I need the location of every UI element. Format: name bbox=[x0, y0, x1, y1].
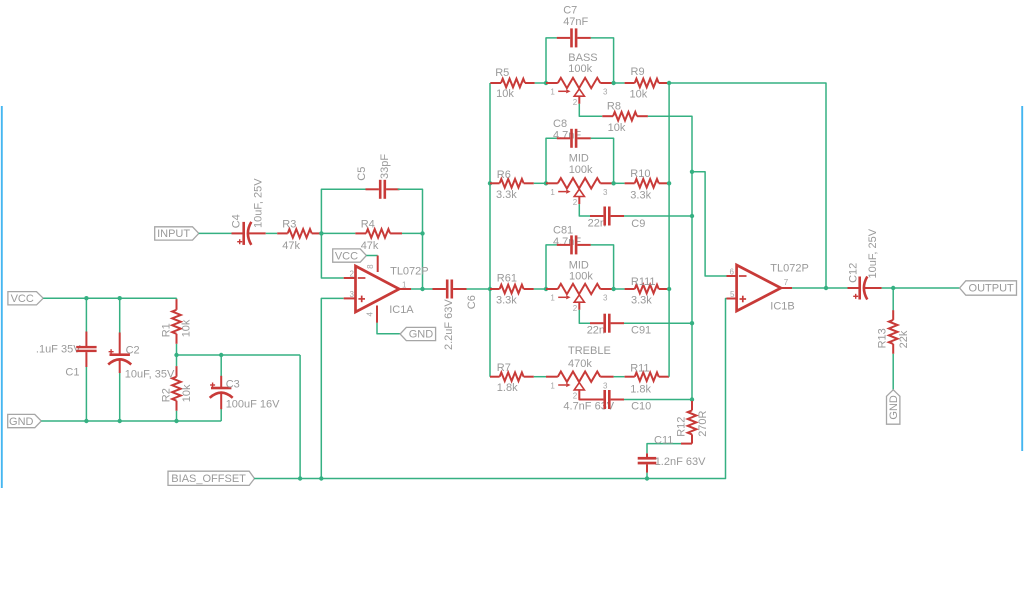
junction bbox=[219, 353, 223, 357]
wire bbox=[119, 298, 121, 332]
junction bbox=[544, 181, 548, 185]
junction bbox=[891, 286, 895, 290]
wire bbox=[624, 399, 692, 401]
wire to IN- pin bbox=[321, 233, 343, 278]
resistor R61 bbox=[490, 273, 534, 307]
svg-text:4.7nF 63V: 4.7nF 63V bbox=[563, 400, 614, 412]
svg-text:10k: 10k bbox=[630, 89, 648, 101]
wire bbox=[402, 232, 423, 234]
wire C81 loop left bbox=[546, 245, 557, 289]
svg-text:R4: R4 bbox=[361, 219, 375, 231]
svg-text:3.3k: 3.3k bbox=[631, 295, 652, 307]
svg-text:INPUT: INPUT bbox=[157, 228, 190, 240]
svg-text:3.3k: 3.3k bbox=[630, 190, 651, 202]
wire input bus bbox=[489, 83, 491, 377]
op-amp IC1B (TL072P) bbox=[727, 263, 809, 313]
svg-text:VCC: VCC bbox=[335, 250, 358, 262]
svg-text:10k: 10k bbox=[181, 384, 193, 402]
svg-text:VCC: VCC bbox=[11, 293, 34, 305]
svg-text:C7: C7 bbox=[563, 5, 577, 17]
junction bbox=[667, 287, 671, 291]
capacitor C8 bbox=[553, 118, 591, 148]
capacitor C10 bbox=[563, 390, 651, 412]
svg-text:10uF, 25V: 10uF, 25V bbox=[867, 228, 879, 278]
potentiometer TREBLE bbox=[546, 345, 614, 401]
junction bbox=[118, 419, 122, 423]
wire bbox=[579, 104, 602, 116]
resistor R8 bbox=[602, 101, 648, 135]
junction feedback bbox=[824, 286, 828, 290]
svg-text:GND: GND bbox=[888, 395, 900, 420]
capacitor C91 bbox=[587, 314, 651, 337]
wire C7 loop right bbox=[591, 38, 614, 83]
wire bbox=[266, 232, 278, 234]
wire bbox=[176, 344, 178, 355]
svg-text:R61: R61 bbox=[497, 273, 517, 285]
wire bbox=[624, 322, 692, 324]
junction IC1A out bbox=[420, 287, 424, 291]
svg-text:1: 1 bbox=[550, 294, 555, 303]
svg-text:C1: C1 bbox=[65, 366, 79, 378]
wire bbox=[85, 298, 87, 331]
svg-text:10uF, 25V: 10uF, 25V bbox=[253, 178, 265, 228]
svg-text:6: 6 bbox=[730, 267, 735, 276]
wire bbox=[646, 473, 648, 479]
svg-text:MID: MID bbox=[569, 153, 589, 165]
svg-text:TREBLE: TREBLE bbox=[568, 345, 611, 357]
resistor R4 bbox=[355, 219, 402, 253]
junction bbox=[319, 476, 323, 480]
resistor R13 bbox=[877, 310, 911, 354]
svg-text:R9: R9 bbox=[631, 66, 645, 78]
svg-text:470k: 470k bbox=[568, 358, 592, 370]
svg-text:R1: R1 bbox=[161, 323, 173, 337]
svg-text:C3: C3 bbox=[226, 379, 240, 391]
svg-text:100k: 100k bbox=[569, 164, 593, 176]
svg-text:47k: 47k bbox=[361, 240, 379, 252]
wire summing bus bbox=[648, 116, 692, 401]
wire bbox=[220, 355, 222, 376]
svg-text:5: 5 bbox=[730, 290, 735, 299]
resistor R3 bbox=[277, 219, 321, 253]
svg-text:7: 7 bbox=[784, 278, 789, 287]
wire bbox=[614, 288, 625, 290]
svg-text:47nF: 47nF bbox=[563, 16, 588, 28]
wire mid rail bbox=[177, 354, 301, 356]
wire bbox=[467, 288, 491, 290]
potentiometer MID bbox=[546, 153, 614, 208]
svg-text:BASS: BASS bbox=[568, 52, 597, 64]
svg-text:C9: C9 bbox=[631, 218, 645, 230]
wire to IC1B IN- bbox=[692, 172, 727, 276]
svg-text:1: 1 bbox=[550, 88, 555, 97]
wire GND rail bbox=[41, 420, 221, 422]
junction bbox=[611, 181, 615, 185]
svg-text:2: 2 bbox=[573, 198, 578, 207]
supply GND flag bbox=[8, 414, 42, 427]
svg-text:2: 2 bbox=[573, 392, 578, 401]
junction bbox=[690, 214, 694, 218]
svg-text:C11: C11 bbox=[654, 434, 673, 446]
svg-text:3: 3 bbox=[603, 88, 608, 97]
port INPUT flag bbox=[155, 227, 199, 240]
wire bbox=[176, 355, 178, 366]
svg-text:100k: 100k bbox=[568, 63, 592, 75]
svg-text:C91: C91 bbox=[631, 325, 651, 337]
svg-text:R7: R7 bbox=[497, 362, 511, 374]
svg-text:C6: C6 bbox=[466, 295, 478, 309]
junction bbox=[84, 296, 88, 300]
wire bias offset bbox=[254, 299, 726, 479]
supply VCC flag bbox=[333, 249, 367, 262]
svg-text:1.8k: 1.8k bbox=[497, 382, 518, 394]
supply GND flag bbox=[400, 327, 436, 340]
svg-text:C5: C5 bbox=[356, 167, 368, 181]
svg-text:3.3k: 3.3k bbox=[496, 189, 517, 201]
junction bbox=[84, 419, 88, 423]
svg-text:1: 1 bbox=[550, 381, 555, 390]
resistor R10 bbox=[625, 168, 670, 202]
svg-text:47k: 47k bbox=[282, 240, 300, 252]
wire C8 loop right bbox=[591, 138, 614, 183]
svg-text:3: 3 bbox=[350, 290, 355, 299]
wire bbox=[614, 182, 625, 184]
wire bbox=[398, 189, 423, 289]
port BIAS_OFFSET flag bbox=[168, 471, 255, 485]
wire bias riser bbox=[299, 355, 301, 479]
wire bbox=[176, 298, 178, 299]
junction bbox=[667, 181, 671, 185]
svg-text:R12: R12 bbox=[676, 417, 688, 437]
svg-text:R11: R11 bbox=[630, 362, 649, 374]
svg-text:R2: R2 bbox=[161, 388, 173, 402]
svg-text:C2: C2 bbox=[126, 345, 140, 357]
svg-text:10uF, 35V: 10uF, 35V bbox=[125, 368, 175, 380]
wire VCC rail bbox=[43, 297, 177, 299]
wire bbox=[321, 232, 355, 234]
junction bbox=[645, 476, 649, 480]
svg-text:R13: R13 bbox=[877, 328, 889, 348]
wire bbox=[892, 288, 894, 310]
wire bbox=[579, 397, 590, 399]
svg-text:22n: 22n bbox=[588, 218, 606, 230]
svg-text:2.2uF 63V: 2.2uF 63V bbox=[443, 299, 455, 350]
svg-text:4: 4 bbox=[365, 312, 374, 317]
svg-text:R10: R10 bbox=[630, 168, 650, 180]
svg-text:3: 3 bbox=[603, 188, 608, 197]
junction bbox=[611, 81, 615, 85]
svg-text:8: 8 bbox=[366, 264, 375, 269]
capacitor C7 bbox=[557, 5, 591, 48]
wire output bus bbox=[668, 83, 670, 377]
capacitor C11 bbox=[638, 434, 706, 472]
svg-text:IC1B: IC1B bbox=[770, 300, 794, 312]
wire bbox=[411, 288, 433, 290]
svg-text:C12: C12 bbox=[847, 263, 859, 283]
junction bbox=[298, 476, 302, 480]
svg-text:2: 2 bbox=[350, 270, 355, 279]
svg-text:R3: R3 bbox=[282, 219, 296, 231]
op-amp IC1A (TL072P) bbox=[344, 256, 429, 323]
svg-text:C8: C8 bbox=[553, 118, 567, 130]
svg-text:33pF: 33pF bbox=[379, 154, 391, 179]
resistor R111 bbox=[625, 276, 670, 307]
wire bbox=[892, 354, 894, 390]
svg-text:TL072P: TL072P bbox=[390, 266, 429, 278]
junction bbox=[544, 81, 548, 85]
supply GND flag bbox=[887, 390, 901, 424]
resistor R2 bbox=[161, 366, 194, 411]
wire bbox=[624, 215, 692, 217]
svg-text:2: 2 bbox=[573, 304, 578, 313]
svg-text:R6: R6 bbox=[497, 169, 511, 181]
svg-text:R8: R8 bbox=[607, 101, 621, 113]
svg-text:1: 1 bbox=[402, 281, 407, 290]
junction bbox=[420, 231, 424, 235]
capacitor C1 bbox=[36, 332, 97, 379]
wire bbox=[579, 204, 590, 216]
svg-text:100k: 100k bbox=[569, 271, 593, 283]
svg-text:R111: R111 bbox=[631, 276, 656, 288]
wire C7 loop left bbox=[546, 38, 557, 83]
wire output bbox=[882, 287, 960, 289]
wire bbox=[534, 288, 546, 290]
potentiometer MID2 bbox=[546, 260, 614, 313]
svg-text:C10: C10 bbox=[631, 400, 651, 412]
svg-text:2: 2 bbox=[573, 98, 578, 107]
wire feedback top bbox=[669, 83, 826, 288]
svg-text:10k: 10k bbox=[496, 88, 514, 100]
wire to IN+ pin bbox=[321, 298, 343, 478]
wire IC1B out bbox=[792, 287, 849, 289]
wire C8 loop left bbox=[546, 138, 557, 183]
wire bbox=[614, 376, 625, 378]
capacitor C6 bbox=[433, 280, 479, 351]
junction bbox=[544, 287, 548, 291]
wire bbox=[85, 367, 87, 421]
svg-text:3: 3 bbox=[603, 294, 608, 303]
capacitor C5 bbox=[356, 154, 399, 199]
wire bbox=[176, 411, 178, 421]
svg-text:GND: GND bbox=[9, 416, 34, 428]
svg-text:C4: C4 bbox=[230, 214, 242, 228]
wire bbox=[647, 444, 681, 454]
svg-text:270R: 270R bbox=[697, 410, 709, 436]
svg-text:10k: 10k bbox=[608, 122, 626, 134]
capacitor C4 bbox=[230, 178, 265, 245]
svg-text:R5: R5 bbox=[495, 67, 509, 79]
potentiometer BASS bbox=[546, 52, 614, 107]
svg-text:100uF 16V: 100uF 16V bbox=[226, 398, 280, 410]
svg-text:3.3k: 3.3k bbox=[496, 295, 517, 307]
wire bbox=[366, 255, 377, 257]
junction bbox=[690, 397, 694, 401]
junction node IN- bbox=[319, 231, 323, 235]
junction bbox=[488, 287, 492, 291]
resistor R5 bbox=[490, 67, 534, 100]
svg-text:BIAS_OFFSET: BIAS_OFFSET bbox=[171, 473, 246, 485]
capacitor C81 bbox=[553, 225, 591, 255]
svg-text:.1uF 35V: .1uF 35V bbox=[36, 343, 81, 355]
wire bbox=[614, 82, 625, 84]
resistor R6 bbox=[490, 169, 534, 201]
capacitor C9 bbox=[588, 207, 646, 231]
wire bbox=[535, 82, 546, 84]
svg-text:TL072P: TL072P bbox=[770, 263, 809, 275]
junction bbox=[690, 321, 694, 325]
wire C81 loop right bbox=[591, 245, 614, 289]
svg-text:1.8k: 1.8k bbox=[630, 384, 651, 396]
wire input bbox=[199, 232, 232, 234]
svg-text:22n: 22n bbox=[587, 325, 605, 337]
junction bbox=[611, 287, 615, 291]
junction bbox=[488, 181, 492, 185]
svg-text:10k: 10k bbox=[181, 319, 193, 337]
wire bbox=[534, 376, 546, 378]
junction bbox=[667, 81, 671, 85]
resistor R1 bbox=[161, 299, 193, 344]
wire bbox=[377, 323, 400, 334]
capacitor C12 bbox=[847, 228, 881, 299]
junction bbox=[690, 170, 694, 174]
capacitor C2 bbox=[108, 333, 175, 381]
wire C5 branch bbox=[321, 189, 367, 233]
svg-text:22k: 22k bbox=[898, 330, 910, 348]
resistor R9 bbox=[625, 66, 670, 100]
svg-text:IC1A: IC1A bbox=[389, 304, 414, 316]
svg-text:GND: GND bbox=[409, 329, 434, 341]
svg-text:1.2nF 63V: 1.2nF 63V bbox=[655, 456, 706, 468]
capacitor C3 bbox=[210, 376, 280, 411]
junction bbox=[118, 296, 122, 300]
svg-text:OUTPUT: OUTPUT bbox=[969, 283, 1015, 295]
wire bbox=[220, 409, 222, 421]
resistor R7 bbox=[490, 362, 534, 394]
wire bbox=[119, 373, 121, 421]
svg-text:3: 3 bbox=[603, 381, 608, 390]
port OUTPUT flag bbox=[960, 281, 1017, 295]
supply VCC flag bbox=[8, 292, 43, 305]
wire bbox=[579, 310, 590, 323]
junction bbox=[174, 353, 178, 357]
wire bbox=[534, 182, 546, 184]
junction bbox=[174, 419, 178, 423]
resistor R12 bbox=[676, 401, 709, 444]
resistor R11 bbox=[625, 362, 670, 395]
svg-text:C81: C81 bbox=[553, 225, 573, 237]
svg-text:1: 1 bbox=[550, 188, 555, 197]
